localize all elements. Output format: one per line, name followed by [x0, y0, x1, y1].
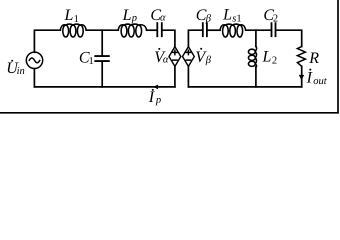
- label V_beta: [195, 48, 211, 66]
- wire V_alpha to bottom-left rail: [174, 66, 176, 87]
- svg-text:L: L: [262, 48, 272, 65]
- svg-text:in: in: [17, 66, 25, 77]
- label I_out: [306, 69, 328, 87]
- wire L2 to bottom-right rail: [255, 67, 257, 87]
- wire V_beta up to C_beta: [188, 30, 202, 46]
- svg-text:1: 1: [74, 14, 79, 25]
- AC source Uin: [26, 52, 42, 68]
- svg-text:1: 1: [89, 56, 94, 67]
- label Lp: [122, 7, 137, 24]
- svg-text:I: I: [306, 70, 313, 87]
- bottom-left wire: [34, 86, 175, 88]
- label L2: [262, 48, 278, 66]
- label V_alpha: [154, 48, 169, 66]
- wire L1 to Lp: [86, 29, 118, 31]
- svg-text:I: I: [148, 89, 155, 106]
- svg-text:α: α: [163, 54, 169, 65]
- capacitor C1: [95, 56, 109, 61]
- label I_p: [148, 89, 161, 106]
- svg-text:L: L: [122, 7, 132, 24]
- capacitor C_alpha: [157, 23, 162, 36]
- inductor Lp: [118, 24, 146, 37]
- label Ls1: [222, 7, 242, 25]
- label C_alpha: [150, 7, 166, 24]
- wire C_beta to Ls1: [208, 29, 220, 31]
- current arrow I_p: [153, 85, 158, 90]
- wire R to bottom-right corner: [301, 66, 303, 87]
- svg-text:out: out: [313, 76, 328, 87]
- svg-text:β: β: [205, 14, 212, 25]
- svg-text:p: p: [131, 13, 137, 24]
- bottom-right wire: [188, 86, 301, 88]
- wire C_alpha to V_alpha: [163, 30, 175, 46]
- wire Ls1 past node to C2: [246, 29, 271, 31]
- wire node A down to C1: [101, 30, 103, 55]
- label C1: [79, 50, 94, 67]
- wire V_beta bottom to bottom-right rail: [187, 66, 189, 87]
- inductor L2: [248, 47, 256, 68]
- capacitor C_beta: [203, 23, 207, 36]
- svg-text:α: α: [160, 12, 166, 23]
- label C2: [263, 7, 278, 24]
- wire Lp to C_alpha: [147, 29, 157, 31]
- resistor R: [297, 47, 305, 67]
- capacitor C2: [272, 23, 276, 36]
- svg-text:s1: s1: [232, 14, 241, 25]
- inductor L1: [60, 24, 86, 37]
- wire C2 to right rail: [276, 30, 301, 46]
- dependent source V_beta: [183, 47, 195, 67]
- svg-text:β: β: [205, 55, 212, 66]
- label L1: [64, 7, 79, 25]
- wire from source top to L1: [34, 30, 60, 52]
- wire C1 to bottom rail: [101, 62, 103, 87]
- inductor Ls1: [220, 24, 246, 37]
- svg-text:2: 2: [273, 13, 278, 24]
- svg-text:R: R: [308, 50, 319, 67]
- dependent source V_alpha: [169, 47, 181, 67]
- svg-text:2: 2: [272, 56, 277, 67]
- svg-text:p: p: [155, 95, 161, 106]
- label C_beta: [196, 7, 212, 24]
- wire node down to L2: [255, 30, 257, 46]
- current arrow I_out: [299, 75, 304, 81]
- svg-text:L: L: [222, 7, 232, 24]
- svg-text:L: L: [64, 7, 74, 24]
- label U_in: [6, 60, 24, 77]
- wire from source bottom to bottom-left rail: [33, 69, 35, 87]
